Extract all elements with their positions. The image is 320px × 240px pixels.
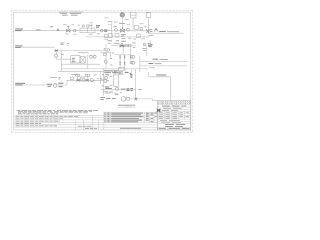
E-2 internals [80, 57, 85, 63]
E-1 internals [72, 58, 76, 61]
gauge box+bubble row 1 [130, 56, 132, 58]
small box [119, 71, 122, 74]
text below suction [103, 92, 122, 93]
instrument bubble [55, 54, 58, 57]
tag box stem [147, 18, 149, 34]
riser from line 3 [66, 80, 68, 85]
dark valve at line 2 jog [55, 50, 58, 52]
equipment box E-2 [80, 57, 85, 63]
bubble stacked upper [105, 76, 108, 79]
revision table rules [104, 111, 158, 130]
export line B [140, 65, 187, 67]
light text above cluster [50, 76, 57, 78]
feed line 2 (mid left) [15, 46, 55, 48]
dark valve cluster on suction [127, 89, 134, 91]
faint marks below [125, 105, 131, 107]
text right [67, 44, 69, 46]
bubble right [90, 79, 93, 82]
actuated valve dark [130, 75, 132, 78]
left edge marks [100, 78, 109, 81]
relief valve stem [149, 40, 151, 48]
scattered tag texts upper band [114, 24, 147, 27]
right riser [130, 47, 132, 61]
marks [112, 52, 115, 54]
text above line 2 end [60, 43, 65, 45]
branch line left [100, 52, 111, 54]
small text right of bubble [61, 53, 63, 55]
vertical valves row 1 [119, 56, 126, 59]
second box [129, 44, 132, 46]
instrument bubble [105, 29, 108, 32]
riser right of boxes [87, 55, 89, 69]
long riser to pump [135, 69, 137, 99]
line label flag 3 [15, 83, 25, 85]
bubble [112, 70, 115, 73]
header line right segment [111, 30, 150, 32]
revision table row texts [104, 113, 157, 128]
text above left of pump [105, 92, 111, 94]
control valve CV-1 [67, 26, 71, 32]
aux bubble right of valve header [143, 43, 146, 46]
tiny bowtie before riser [104, 30, 107, 32]
marks under strainer [89, 33, 101, 35]
notes table rules [14, 111, 104, 130]
short branch line [108, 24, 111, 26]
lower process line [67, 79, 104, 81]
line label flag 2 [15, 46, 22, 48]
bubble [115, 70, 118, 73]
small box [134, 26, 139, 30]
bubble [140, 27, 143, 30]
instrument bubble [107, 49, 110, 52]
inline equipment box (strainer) [80, 28, 95, 33]
inline box on collector [118, 68, 124, 71]
export A label light part [159, 58, 167, 60]
branch tag text [119, 23, 125, 25]
pipe under boxes [61, 63, 100, 65]
central top label row 2 [107, 42, 119, 44]
label above lower line [71, 74, 78, 76]
feed line 1 (top left header) [15, 30, 111, 32]
top instrument: filled bubble [120, 13, 125, 18]
recycle down riser [170, 77, 172, 101]
mid riser [122, 47, 124, 55]
labels left of pump [100, 98, 115, 100]
inner drawing border [14, 12, 191, 130]
small box D [136, 34, 140, 38]
small tag on line 1 [36, 29, 41, 31]
marks on sub-header [121, 34, 126, 36]
small box C [115, 33, 119, 37]
twin mini boxes 1 [76, 74, 78, 76]
top control box [130, 12, 136, 18]
left column small box [104, 53, 107, 56]
gauge box+bubble row 2 [130, 61, 132, 63]
heading underline [118, 106, 136, 108]
mini box stems [78, 76, 88, 79]
dashes right of boxes [132, 43, 136, 48]
far right riser [139, 56, 141, 72]
dark tag under vessel [105, 87, 112, 89]
left riser [60, 51, 62, 72]
drum vessel [113, 75, 118, 86]
extra marks near suction [102, 85, 142, 89]
control valve on header [121, 27, 125, 32]
dark control valve [120, 43, 125, 47]
process line mid [57, 50, 106, 52]
box right of valve [125, 45, 128, 47]
lower-central labels [104, 71, 112, 73]
line label flag 1 [15, 29, 23, 31]
right riser of lower-left group [99, 71, 101, 84]
sub-header line [86, 36, 150, 38]
marks upper [58, 75, 99, 79]
central top label row 1 [108, 40, 127, 42]
title block grid [158, 101, 191, 130]
title block frame [158, 101, 191, 130]
feed line 3 (lower left) [15, 84, 67, 86]
marks [110, 75, 113, 77]
dark tag right [58, 83, 63, 86]
bubble on suction [116, 87, 119, 90]
scattered tag texts lower band [105, 38, 146, 39]
small box B [109, 34, 113, 38]
dark valve cluster at header end [146, 29, 152, 32]
reference heading [118, 104, 135, 106]
faint tags near line 1 [63, 25, 80, 35]
marks on suction [121, 88, 125, 90]
branch line right [114, 54, 131, 56]
control valve lower 1 [77, 79, 80, 82]
instrument bubble pair [90, 55, 93, 58]
vertical valves row 2 [119, 62, 126, 65]
dark label row under collector [112, 72, 131, 73]
control valve lower 2 [85, 79, 88, 82]
light label row [78, 51, 89, 53]
pump discharge line [130, 98, 153, 100]
recycle connects cluster [148, 72, 150, 77]
notes paragraph [17, 111, 99, 114]
long collector line [61, 68, 148, 70]
tag above small valve [50, 26, 53, 28]
recycle line top [149, 76, 171, 78]
export B label dark part [149, 63, 154, 65]
small box A [104, 34, 108, 38]
title block cell texts [158, 102, 190, 129]
export B label light part [155, 63, 162, 65]
top instrument stem [121, 17, 123, 29]
relief valve body [148, 43, 152, 46]
aux dashes below [142, 49, 147, 51]
marks [115, 94, 119, 96]
valve stem [130, 69, 132, 75]
instrument bubble [101, 29, 104, 32]
small text near spec break [89, 24, 93, 26]
twin mini boxes 2 [85, 74, 87, 76]
left column bubble [104, 60, 107, 63]
pump P-1 [121, 97, 126, 102]
faint text under export B [149, 67, 155, 69]
drawing general-note text block top-center [59, 12, 83, 15]
top control box stem [132, 18, 134, 30]
descent line [103, 69, 105, 96]
export A label dark part [153, 58, 159, 60]
header line cluster: bubble [115, 29, 118, 32]
valve header line [111, 45, 136, 47]
faint text left of top instruments [105, 18, 129, 22]
manifold riser 1 [119, 55, 121, 69]
approval stamp scribble [157, 109, 161, 112]
recycle label [156, 74, 166, 76]
instrument bubble [114, 71, 117, 74]
short riser [110, 53, 112, 57]
short branch [100, 79, 106, 81]
equipment box E-1 [71, 56, 80, 63]
pump outlet box [127, 97, 130, 100]
marks left of manifold [110, 59, 112, 65]
short pipe to equipment [56, 57, 71, 59]
bubble [104, 80, 107, 83]
flare line label dark part [159, 31, 166, 33]
manifold riser 2 [124, 55, 126, 69]
inline valve on discharge [135, 98, 138, 101]
outer trim border (dashed top/bottom) [11, 10, 192, 132]
instrument bubble [74, 29, 77, 32]
dark tag text [96, 26, 100, 28]
short stub line [58, 70, 104, 72]
aux riser [145, 46, 147, 56]
box with X [81, 77, 85, 81]
top small tag box [146, 13, 150, 18]
flare line label light part [167, 31, 179, 33]
central riser 1 [105, 44, 107, 69]
suction header line [101, 89, 136, 91]
small valve on line 1 [57, 29, 59, 31]
flare line (top right exit) [148, 32, 183, 34]
stem to bubble [55, 52, 57, 55]
small text under flare line [149, 34, 154, 36]
spec zigzag on flare line [154, 28, 158, 31]
mini instruments atop strainer [82, 25, 84, 27]
dark tag left [47, 84, 52, 86]
instrument bubble [53, 84, 57, 88]
riser at junction [110, 23, 112, 38]
join from discharge [151, 99, 153, 101]
bubble on lower line [71, 77, 74, 80]
notes table row texts [16, 117, 98, 129]
spec-break vertical with T-top [90, 23, 93, 31]
bubble [127, 28, 130, 31]
export line A [140, 60, 188, 62]
recycle bottom run [152, 100, 157, 102]
dark marks small [102, 74, 109, 76]
marks below riser [104, 48, 106, 50]
